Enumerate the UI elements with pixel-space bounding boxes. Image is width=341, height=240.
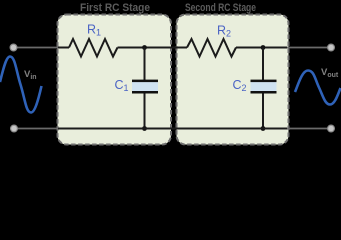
- capacitor C1: [132, 80, 158, 94]
- wire output top (box2 to terminal): [287, 47, 328, 49]
- node B (R2/C2 junction): [261, 45, 266, 50]
- node C1 bottom junction: [142, 126, 147, 131]
- input sine wave Vin: [0, 57, 42, 113]
- resistor R1: [69, 39, 118, 57]
- terminal output top: [328, 44, 335, 51]
- wire input bottom (terminal to box1): [16, 128, 59, 130]
- wire R1 to node A: [118, 47, 179, 49]
- wire bottom rail: [58, 128, 287, 130]
- svg-text:Second RC Stage: Second RC Stage: [185, 2, 256, 14]
- wire output bottom (box2 to terminal): [287, 128, 328, 130]
- output sine wave Vout: [295, 71, 341, 105]
- svg-text:First RC Stage: First RC Stage: [80, 2, 150, 14]
- wire top rail stage 2 entry: [177, 47, 187, 49]
- resistor R2: [187, 39, 236, 57]
- terminal input top: [10, 44, 17, 51]
- terminal output bottom: [328, 125, 335, 132]
- capacitor C1 lead top: [144, 48, 146, 81]
- capacitor C2 lead bottom: [262, 94, 264, 129]
- capacitor C2: [251, 80, 277, 94]
- capacitor C1 lead bottom: [144, 94, 146, 129]
- capacitor C2 lead top: [262, 48, 264, 81]
- terminal input bottom: [11, 125, 18, 132]
- node C2 bottom junction: [261, 126, 266, 131]
- stage box 1 (First RC Stage): [58, 15, 172, 145]
- wire top rail stage 1: [58, 47, 69, 49]
- wire R2 to node B: [236, 47, 287, 49]
- stage box 2 (Second RC Stage): [177, 15, 289, 145]
- wire input top (terminal to box1): [16, 47, 59, 49]
- node A (R1/C1 junction): [142, 45, 147, 50]
